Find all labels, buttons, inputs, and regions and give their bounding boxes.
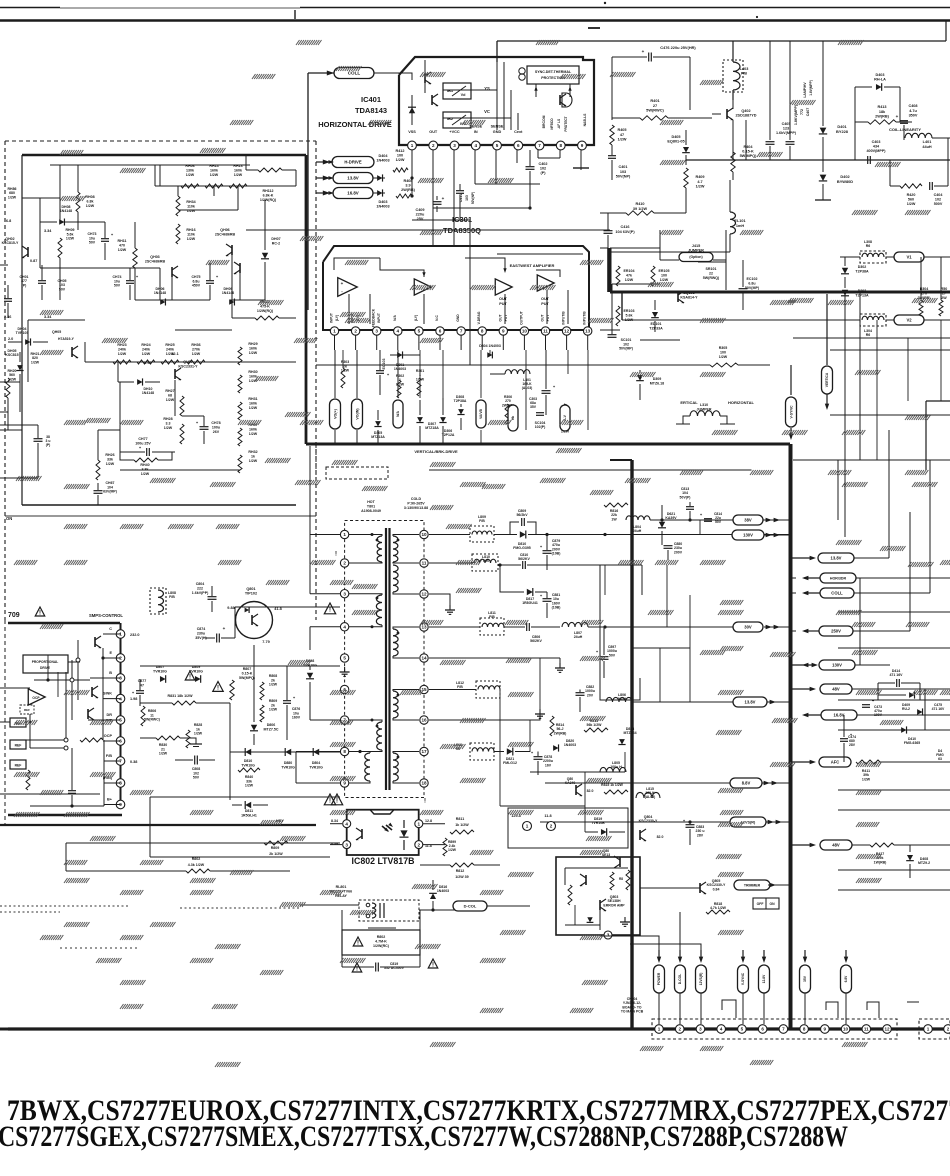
- svg-text:1: 1: [343, 532, 346, 537]
- svg-text:VSS: VSS: [408, 130, 416, 134]
- svg-text:47k: 47k: [626, 273, 632, 277]
- svg-text:R6: R6: [866, 333, 871, 337]
- svg-text:Hk: Hk: [511, 416, 515, 420]
- svg-text:9: 9: [824, 1027, 827, 1032]
- transformer primary winding 7-8: [377, 722, 382, 750]
- svg-text:Cext: Cext: [514, 130, 523, 134]
- svg-text:V2: V2: [906, 318, 912, 323]
- svg-text:T2P12A: T2P12A: [442, 433, 455, 437]
- svg-text:TRIMMER: TRIMMER: [744, 883, 761, 887]
- svg-text:1/2W: 1/2W: [164, 426, 173, 430]
- svg-text:L403: L403: [740, 67, 749, 71]
- svg-text:2k 1/2W: 2k 1/2W: [269, 852, 283, 856]
- svg-text:35V: 35V: [530, 405, 537, 409]
- svg-text:270k: 270k: [192, 347, 200, 351]
- svg-text:4.3k 1/2W: 4.3k 1/2W: [188, 863, 205, 867]
- svg-text:0.15-K: 0.15-K: [242, 671, 253, 675]
- svg-text:RC-2: RC-2: [272, 241, 280, 245]
- svg-text:28V: 28V: [697, 833, 704, 837]
- svg-text:6.8k: 6.8k: [87, 199, 94, 203]
- svg-text:RELAY: RELAY: [335, 894, 347, 898]
- transistor Q809: [576, 784, 582, 796]
- opto IC802 pins: [343, 820, 351, 828]
- svg-text:14: 14: [421, 656, 427, 661]
- svg-text:F/B: F/B: [106, 754, 112, 758]
- node D-COL pill: [453, 901, 487, 911]
- wire smps lower mesh: [122, 657, 150, 659]
- svg-text:103: 103: [620, 170, 626, 174]
- svg-text:7.79: 7.79: [262, 640, 269, 644]
- svg-text:5W(RWC): 5W(RWC): [646, 108, 664, 113]
- wire right verticals pack: [844, 292, 846, 537]
- svg-text:24uH: 24uH: [633, 529, 642, 533]
- svg-text:232.0: 232.0: [130, 633, 140, 637]
- wire q402 emitter bus: [745, 120, 747, 160]
- wire y230 long: [296, 229, 610, 231]
- wire rail pin11: [429, 562, 472, 564]
- wire smps right link: [103, 633, 121, 635]
- svg-text:1/2W: 1/2W: [618, 138, 627, 142]
- svg-text:R809: R809: [271, 846, 280, 850]
- diode D309 zener: [636, 375, 644, 381]
- svg-text:104 63V(P): 104 63V(P): [615, 230, 635, 234]
- svg-text:6.8V: 6.8V: [844, 975, 848, 983]
- svg-text:63: 63: [938, 757, 942, 761]
- wire 30V rail: [640, 626, 735, 628]
- svg-text:MTZ13A: MTZ13A: [371, 435, 385, 439]
- svg-text:1/2W: 1/2W: [719, 355, 728, 359]
- inductor L811: [480, 618, 504, 635]
- wire right col wire: [239, 318, 241, 470]
- svg-text:1.8KV(MPP): 1.8KV(MPP): [794, 104, 798, 125]
- svg-text:GND: GND: [493, 130, 502, 134]
- transistor Q802: [614, 856, 620, 868]
- svg-text:L310: L310: [700, 403, 708, 407]
- node 30V pill: [733, 622, 763, 632]
- diode D302: [841, 268, 849, 274]
- svg-text:100u 25V: 100u 25V: [135, 441, 151, 445]
- svg-text:12.8: 12.8: [425, 819, 432, 823]
- svg-text:R412: R412: [395, 149, 404, 153]
- box REF1: [10, 718, 26, 727]
- svg-text:3.9: 3.9: [405, 184, 410, 188]
- svg-text:200V: 200V: [674, 550, 683, 554]
- svg-text:VC: VC: [484, 109, 490, 114]
- wire top border thick line: [0, 19, 950, 22]
- wire pin7/8 stubs: [537, 150, 539, 158]
- svg-text:C409: C409: [415, 208, 424, 212]
- svg-text:2: 2: [343, 561, 346, 566]
- transformer secondary winding 17-18: [393, 753, 398, 781]
- svg-text:3.3: 3.3: [166, 421, 171, 425]
- svg-text:L401: L401: [923, 140, 932, 144]
- transformer secondary winding 15-16: [393, 691, 398, 718]
- svg-text:MTZ9.2: MTZ9.2: [918, 861, 930, 865]
- svg-text:1.98: 1.98: [130, 697, 137, 701]
- svg-text:222: 222: [197, 586, 203, 590]
- connector CN804 pins 1-12: [655, 1025, 664, 1034]
- node COLL pill right: [820, 588, 854, 598]
- wire top right mesh: [659, 230, 661, 260]
- diode D880: [285, 748, 291, 756]
- inductor L810: [472, 554, 498, 571]
- svg-text:DH07: DH07: [271, 237, 280, 241]
- svg-text:471 16V: 471 16V: [889, 673, 903, 677]
- svg-text:160k: 160k: [210, 168, 218, 172]
- transformer left pins: [340, 530, 348, 538]
- svg-text:35V: 35V: [803, 975, 807, 982]
- wire bottom risers: [599, 936, 601, 940]
- svg-text:9: 9: [581, 143, 584, 148]
- svg-text:OUT: OUT: [541, 315, 545, 322]
- diode D303 small: [487, 352, 492, 359]
- svg-text:D-COL: D-COL: [464, 903, 477, 908]
- wire rail pin14 ground: [429, 657, 560, 659]
- svg-text:VA/VB: VA/VB: [479, 408, 483, 418]
- capacitor left edge CH: [4, 298, 12, 300]
- svg-text:F/B: F/B: [457, 685, 463, 689]
- diode inside IC401: [408, 107, 416, 113]
- capacitor C404: [929, 182, 931, 190]
- svg-text:1/2W(RC): 1/2W(RC): [373, 944, 390, 948]
- svg-text:160k: 160k: [234, 168, 242, 172]
- wire 38V rail: [650, 519, 735, 521]
- wire right frame: [926, 400, 950, 402]
- wire COLL to IC401: [374, 73, 412, 80]
- svg-text:PUT: PUT: [504, 315, 508, 322]
- svg-text:50V: 50V: [114, 284, 121, 288]
- svg-text:9: 9: [502, 329, 505, 334]
- svg-text:AFC: AFC: [831, 760, 840, 765]
- transformer T801 dashed box: [345, 521, 424, 798]
- svg-text:SENSE: SENSE: [491, 125, 504, 129]
- inductor L308: [860, 251, 886, 263]
- node AFC pill: [819, 757, 851, 767]
- warning triangle smps: [185, 671, 195, 680]
- svg-text:RH28: RH28: [163, 417, 172, 421]
- switch OFF ON: [753, 898, 779, 909]
- svg-text:470: 470: [119, 243, 125, 247]
- capacitor C819: [352, 963, 362, 972]
- transformer core: [385, 528, 387, 790]
- wire left block dashed border: [5, 140, 316, 142]
- svg-text:6: 6: [761, 1027, 764, 1032]
- svg-text:FMLG12: FMLG12: [503, 761, 517, 765]
- wire rail pin17: [429, 469, 752, 471]
- svg-text:KSC815-Y: KSC815-Y: [2, 241, 19, 245]
- svg-text:C403: C403: [872, 140, 881, 144]
- svg-text:1/2W: 1/2W: [118, 352, 127, 356]
- svg-text:COLD: COLD: [411, 497, 422, 501]
- svg-text:1/2W: 1/2W: [269, 683, 278, 687]
- svg-text:VERTICAL/BRK-DRIVE: VERTICAL/BRK-DRIVE: [414, 449, 458, 454]
- svg-text:8: 8: [803, 1027, 806, 1032]
- node 250V pill: [819, 626, 853, 636]
- svg-text:50V(NP): 50V(NP): [471, 192, 475, 204]
- wire 130V right: [802, 663, 808, 667]
- wire lower mesh: [230, 751, 340, 753]
- node VA pill: [476, 400, 486, 428]
- svg-text:33k: 33k: [107, 457, 113, 461]
- svg-text:1R8GU41: 1R8GU41: [522, 601, 538, 605]
- svg-text:1N4003: 1N4003: [437, 889, 449, 893]
- node 12VS pill: [730, 817, 766, 827]
- box PROPORTIONAL DRIVE: [23, 655, 68, 673]
- svg-text:R812: R812: [456, 869, 465, 873]
- svg-text:2W(RB): 2W(RB): [401, 188, 415, 192]
- inductor L403: [723, 60, 743, 92]
- svg-text:MTZ18A: MTZ18A: [425, 426, 439, 430]
- svg-text:0.67: 0.67: [144, 361, 151, 365]
- svg-text:240k: 240k: [166, 347, 174, 351]
- wire right frame2: [793, 459, 950, 461]
- svg-text:,CS7277SGEX,CS7277SMEX,CS7277T: ,CS7277SGEX,CS7277SMEX,CS7277TSX,CS7277W…: [0, 1120, 848, 1153]
- svg-text:KSC2331-Y: KSC2331-Y: [178, 364, 198, 368]
- svg-text:3.34: 3.34: [44, 229, 52, 233]
- svg-text:B+: B+: [107, 798, 113, 802]
- diode D821: [507, 748, 513, 756]
- svg-text:28V: 28V: [849, 743, 856, 747]
- op-amp A4: [537, 275, 554, 291]
- wire right connections: [854, 122, 856, 160]
- svg-text:SR101: SR101: [706, 267, 717, 271]
- svg-text:100: 100: [661, 273, 667, 277]
- svg-text:1: 1: [418, 821, 421, 826]
- svg-text:RH25: RH25: [165, 343, 174, 347]
- transistor Q402: [727, 108, 733, 120]
- svg-text:160V: 160V: [292, 716, 301, 720]
- svg-text:12.8V: 12.8V: [762, 974, 766, 983]
- svg-text:5W(MPQ): 5W(MPQ): [740, 154, 758, 158]
- svg-text:RH30: RH30: [248, 370, 257, 374]
- box q805 area: [508, 808, 628, 848]
- svg-text:100: 100: [397, 154, 403, 158]
- svg-text:C: C: [109, 627, 112, 631]
- svg-text:2W: 2W: [941, 296, 947, 300]
- svg-text:KA340: KA340: [565, 781, 576, 785]
- svg-text:4: 4: [397, 329, 400, 334]
- svg-text:TVR10G: TVR10G: [309, 765, 323, 769]
- diode D810: [245, 748, 251, 756]
- wire 48V: [790, 688, 810, 690]
- wire dashed left border bottom half: [4, 620, 6, 825]
- wire secondary mesh2: [689, 595, 691, 702]
- svg-text:50V: 50V: [715, 520, 722, 524]
- svg-text:13: 13: [421, 625, 427, 630]
- warning triangle opto: [331, 794, 342, 805]
- wire bottom IC401 pins: [412, 219, 470, 221]
- wire misc smps2: [289, 770, 291, 871]
- svg-text:RH11: RH11: [118, 239, 127, 243]
- resistor R303 pill: [508, 405, 518, 431]
- transformer secondary winding 10-11: [393, 536, 398, 562]
- svg-text:OUT: OUT: [541, 297, 550, 301]
- svg-text:50V: 50V: [609, 653, 616, 657]
- wire top row bus: [155, 185, 296, 187]
- svg-text:0.87: 0.87: [30, 259, 37, 263]
- wire 8.8V rail: [545, 782, 735, 784]
- transistor smps Q1: [95, 636, 101, 648]
- wire dotted row left2: [60, 947, 140, 949]
- svg-text:50V(P): 50V(P): [680, 495, 691, 499]
- svg-text:5: 5: [418, 329, 421, 334]
- svg-text:LAMP/HV: LAMP/HV: [803, 82, 807, 98]
- svg-text:V-SYNC: V-SYNC: [789, 405, 793, 419]
- svg-text:38V: 38V: [744, 518, 752, 523]
- svg-text:4: 4: [343, 624, 346, 629]
- svg-text:56k 1/2W: 56k 1/2W: [587, 723, 603, 727]
- svg-text:Q801: Q801: [246, 587, 255, 591]
- wire ic301 pin stubs long: [419, 350, 421, 398]
- svg-text:EL101: EL101: [734, 219, 745, 223]
- wire 16.8V feed: [323, 191, 330, 196]
- svg-text:11: 11: [864, 1027, 869, 1032]
- svg-text:F/B: F/B: [169, 595, 175, 599]
- diode D804: [313, 748, 319, 756]
- wire smps pin column: [120, 623, 122, 806]
- svg-text:R6: R6: [866, 244, 871, 248]
- wire H-DRIVE feed: [323, 160, 330, 165]
- svg-text:1/2W: 1/2W: [8, 195, 17, 199]
- svg-text:HORIZONTAL: HORIZONTAL: [728, 400, 754, 405]
- svg-text:D403: D403: [378, 200, 387, 204]
- svg-text:1N4003: 1N4003: [376, 205, 389, 209]
- svg-text:12.1: 12.1: [171, 352, 178, 356]
- svg-text:HORIZONTAL DRIVE: HORIZONTAL DRIVE: [318, 120, 391, 129]
- svg-text:1.6kV(MPP): 1.6kV(MPP): [776, 131, 797, 135]
- svg-text:INPUT: INPUT: [377, 313, 381, 323]
- ground pin5 hot: [344, 667, 346, 672]
- svg-text:1: 1: [526, 824, 529, 829]
- svg-text:R50: R50: [941, 287, 948, 291]
- svg-text:VERTICA: VERTICA: [825, 372, 829, 387]
- connector CN804 dashed box: [652, 1019, 897, 1039]
- wire under transformer: [296, 870, 632, 872]
- wire right ladder verticals: [859, 578, 861, 665]
- svg-text:4.7u: 4.7u: [909, 109, 917, 113]
- svg-text:11: 11: [422, 561, 427, 566]
- svg-text:PUT: PUT: [499, 302, 507, 306]
- wire x340 vertical: [339, 650, 341, 745]
- svg-text:5W(MPQ): 5W(MPQ): [239, 676, 256, 680]
- wire pin1 down: [411, 150, 413, 196]
- diode D403b sym: [373, 192, 385, 194]
- svg-text:8: 8: [559, 143, 562, 148]
- svg-text:4: 4: [474, 143, 477, 148]
- svg-text:RH16: RH16: [186, 228, 195, 232]
- wire right horiz pack: [830, 349, 950, 351]
- resistor error amp extra: [610, 872, 614, 890]
- svg-text:10: 10: [522, 329, 528, 334]
- svg-text:!: !: [335, 552, 337, 558]
- svg-text:2: 2: [947, 1027, 950, 1032]
- node 16.8V pill top: [333, 188, 373, 199]
- capacitor C402: [526, 166, 535, 168]
- diode D811: [245, 801, 251, 809]
- svg-text:3.34: 3.34: [44, 315, 52, 319]
- svg-text:INPUT/B: INPUT/B: [562, 311, 566, 325]
- svg-text:50V(MP): 50V(MP): [619, 347, 633, 351]
- svg-text:P:90-265V: P:90-265V: [407, 501, 425, 505]
- svg-text:2SC4686RB: 2SC4686RB: [145, 259, 166, 263]
- node pill pin4 stub: [393, 400, 403, 428]
- svg-text:PUT: PUT: [541, 302, 549, 306]
- svg-text:400V(MPP): 400V(MPP): [866, 149, 886, 153]
- svg-text:D404: D404: [378, 154, 388, 158]
- wire left block mesh5: [59, 165, 61, 222]
- svg-text:D806: D806: [267, 723, 276, 727]
- svg-text:TVR10G: TVR10G: [153, 669, 167, 673]
- wire smps top thick: [8, 622, 120, 624]
- diode ED101: [651, 312, 659, 318]
- svg-text:+: +: [341, 281, 344, 286]
- wire thick bus x790: [789, 444, 793, 1029]
- svg-text:1N4003: 1N4003: [394, 367, 406, 371]
- svg-text:709: 709: [8, 612, 20, 619]
- svg-text:160k: 160k: [249, 427, 257, 431]
- svg-text:BY228: BY228: [836, 129, 849, 134]
- wire vertical x470: [469, 220, 471, 365]
- svg-text:COLL: COLL: [348, 71, 361, 76]
- wire smps-transformer wires: [229, 703, 231, 760]
- svg-text:350V: 350V: [909, 114, 918, 118]
- wire amp feedback: [334, 258, 380, 270]
- svg-text:R8: R8: [619, 877, 623, 881]
- svg-text:12: 12: [421, 592, 427, 597]
- svg-text:MTZ6.18: MTZ6.18: [650, 381, 664, 385]
- svg-text:!: !: [357, 941, 359, 947]
- svg-text:OUT: OUT: [429, 130, 438, 134]
- svg-text:1: 1: [658, 1027, 661, 1032]
- op-amp A2: [414, 279, 431, 295]
- wire transformer pin stubs: [349, 657, 381, 659]
- svg-text:47: 47: [620, 133, 624, 137]
- node 13.8V pill right: [818, 553, 854, 563]
- svg-text:R408: R408: [403, 179, 412, 183]
- resistor R412 sym: [393, 168, 408, 172]
- svg-text:39 1/2W: 39 1/2W: [633, 207, 648, 211]
- svg-text:2W(RB): 2W(RB): [875, 115, 889, 119]
- svg-text:RH23: RH23: [117, 343, 126, 347]
- opto IC802 box: [347, 810, 419, 855]
- svg-text:RH-LA: RH-LA: [874, 78, 886, 82]
- svg-text:RU-2: RU-2: [902, 707, 910, 711]
- svg-text:1/2W: 1/2W: [245, 784, 254, 788]
- svg-text:82.0: 82.0: [587, 789, 594, 793]
- svg-text:1/2W: 1/2W: [862, 777, 871, 781]
- svg-text:H7A519-Y: H7A519-Y: [58, 337, 75, 341]
- svg-text:270: 270: [921, 291, 927, 295]
- svg-text:16.8V: 16.8V: [834, 713, 845, 718]
- wire COLL right: [802, 591, 808, 595]
- svg-text:1/2W: 1/2W: [269, 708, 278, 712]
- svg-text:T2P13A: T2P13A: [855, 293, 869, 297]
- svg-text:4.7: 4.7: [697, 180, 702, 184]
- svg-text:100V: 100V: [874, 713, 883, 717]
- svg-text:NFBCO: NFBCO: [550, 118, 554, 130]
- wire thick bus left-block edge: [305, 155, 308, 444]
- svg-text:MTZ7.5C: MTZ7.5C: [264, 727, 279, 731]
- svg-text:3: 3: [343, 591, 346, 596]
- svg-text:1/2W: 1/2W: [448, 848, 457, 852]
- IC smps pins 1-9: [116, 630, 125, 639]
- svg-text:7: 7: [460, 329, 463, 334]
- wire IC401 internal verticals: [496, 62, 498, 130]
- diode D808 right: [306, 673, 314, 679]
- wire hgrid1: [296, 443, 316, 445]
- svg-text:+VCC: +VCC: [449, 130, 459, 134]
- svg-text:8.8V: 8.8V: [742, 781, 751, 786]
